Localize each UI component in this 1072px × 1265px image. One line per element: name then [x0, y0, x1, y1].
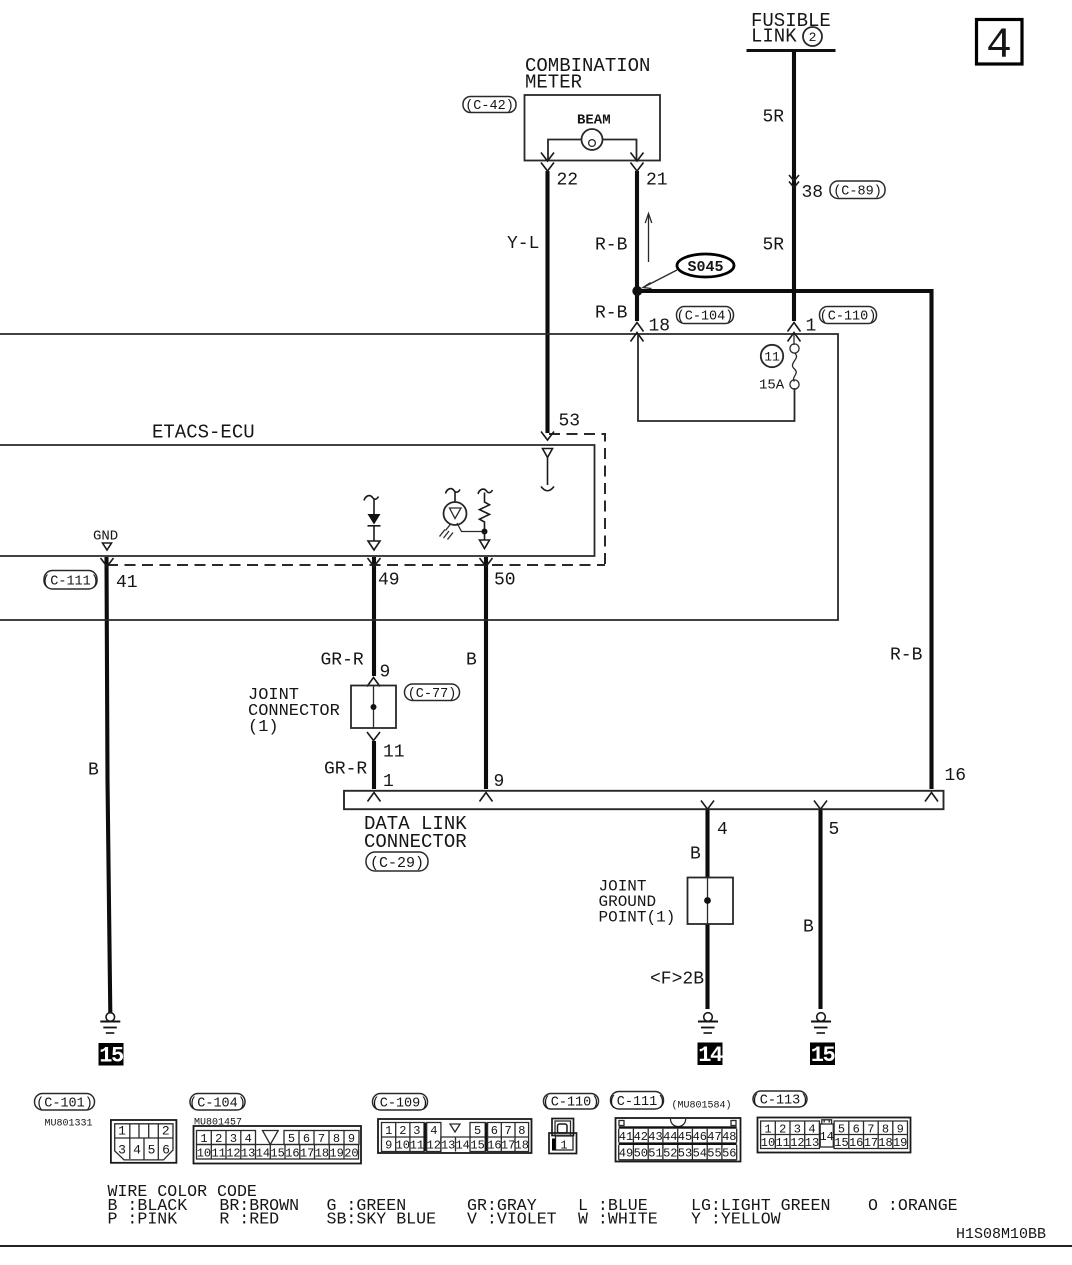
svg-text:5: 5 — [474, 1124, 481, 1138]
svg-text:(C-111): (C-111) — [609, 1095, 666, 1110]
svg-text:B: B — [88, 761, 99, 781]
svg-text:41: 41 — [116, 573, 138, 593]
svg-text:10: 10 — [197, 1147, 211, 1161]
svg-text:54: 54 — [693, 1147, 707, 1161]
svg-text:50: 50 — [494, 571, 516, 591]
svg-text:6: 6 — [491, 1124, 498, 1138]
svg-text:13: 13 — [805, 1136, 819, 1150]
svg-text:11: 11 — [211, 1147, 225, 1161]
svg-text:R-B: R-B — [890, 646, 923, 666]
svg-text:15: 15 — [470, 1139, 484, 1153]
svg-text:(C-110): (C-110) — [820, 310, 877, 325]
svg-text:4: 4 — [986, 21, 1012, 70]
svg-text:10: 10 — [396, 1139, 410, 1153]
svg-text:S045: S045 — [687, 259, 723, 276]
svg-text:10: 10 — [761, 1136, 775, 1150]
svg-text:(C-101): (C-101) — [36, 1097, 93, 1112]
svg-text:Y :YELLOW: Y :YELLOW — [691, 1210, 781, 1229]
svg-text:11: 11 — [775, 1136, 789, 1150]
svg-text:12: 12 — [790, 1136, 804, 1150]
svg-text:7: 7 — [318, 1132, 325, 1146]
svg-text:53: 53 — [559, 412, 581, 432]
svg-text:49: 49 — [619, 1147, 633, 1161]
svg-text:BEAM: BEAM — [577, 113, 611, 129]
svg-text:7: 7 — [867, 1123, 874, 1137]
svg-text:1: 1 — [560, 1139, 567, 1153]
svg-text:GR-R: GR-R — [324, 760, 367, 780]
svg-text:51: 51 — [648, 1147, 662, 1161]
svg-text:1: 1 — [385, 1124, 392, 1138]
svg-text:(C-113): (C-113) — [752, 1094, 809, 1109]
svg-text:(MU801584): (MU801584) — [672, 1100, 732, 1112]
svg-text:13: 13 — [441, 1139, 455, 1153]
svg-text:16: 16 — [487, 1139, 501, 1153]
svg-text:44: 44 — [663, 1130, 677, 1144]
svg-text:42: 42 — [634, 1130, 648, 1144]
svg-text:20: 20 — [344, 1147, 358, 1161]
svg-text:17: 17 — [300, 1147, 314, 1161]
svg-text:18: 18 — [878, 1136, 892, 1150]
svg-text:(C-111): (C-111) — [42, 575, 99, 590]
svg-text:B: B — [466, 651, 477, 671]
svg-text:18: 18 — [315, 1147, 329, 1161]
svg-text:GR-R: GR-R — [321, 651, 364, 671]
svg-text:14: 14 — [256, 1147, 270, 1161]
svg-text:4: 4 — [717, 820, 728, 840]
svg-text:2: 2 — [162, 1124, 170, 1139]
svg-text:11: 11 — [383, 743, 405, 763]
svg-text:1: 1 — [806, 317, 817, 337]
svg-text:16: 16 — [945, 766, 967, 786]
svg-text:5: 5 — [838, 1123, 845, 1137]
svg-text:18: 18 — [649, 317, 671, 337]
svg-text:11: 11 — [764, 350, 780, 365]
svg-text:(C-42): (C-42) — [465, 99, 514, 114]
svg-text:ETACS-ECU: ETACS-ECU — [152, 422, 255, 444]
svg-text:5: 5 — [288, 1132, 295, 1146]
svg-text:14: 14 — [455, 1139, 469, 1153]
svg-text:6: 6 — [303, 1132, 310, 1146]
svg-text:46: 46 — [693, 1130, 707, 1144]
svg-text:3: 3 — [794, 1123, 801, 1137]
svg-text:V :VIOLET: V :VIOLET — [467, 1210, 557, 1229]
svg-text:15: 15 — [99, 1044, 124, 1069]
svg-text:B: B — [803, 918, 814, 938]
svg-text:2: 2 — [809, 30, 817, 45]
svg-text:O :ORANGE: O :ORANGE — [868, 1196, 958, 1215]
svg-text:43: 43 — [648, 1130, 662, 1144]
svg-text:W :WHITE: W :WHITE — [578, 1210, 658, 1229]
svg-text:1: 1 — [118, 1124, 126, 1139]
svg-text:47: 47 — [707, 1130, 721, 1144]
svg-text:6: 6 — [162, 1143, 170, 1158]
svg-text:H1S08M10BB: H1S08M10BB — [956, 1226, 1046, 1243]
svg-text:19: 19 — [893, 1136, 907, 1150]
svg-text:(C-110): (C-110) — [543, 1096, 600, 1111]
svg-text:(1): (1) — [248, 718, 279, 737]
svg-text:(C-104): (C-104) — [677, 310, 734, 325]
svg-text:52: 52 — [663, 1147, 677, 1161]
svg-text:6: 6 — [853, 1123, 860, 1137]
svg-text:13: 13 — [241, 1147, 255, 1161]
svg-text:(C-104): (C-104) — [189, 1097, 246, 1112]
svg-text:14: 14 — [819, 1130, 833, 1144]
svg-text:9: 9 — [494, 772, 505, 792]
svg-text:2: 2 — [215, 1132, 222, 1146]
svg-text:5: 5 — [829, 820, 840, 840]
svg-text:5: 5 — [148, 1143, 156, 1158]
svg-text:2: 2 — [779, 1123, 786, 1137]
svg-text:8: 8 — [333, 1132, 340, 1146]
svg-text:50: 50 — [634, 1147, 648, 1161]
svg-text:56: 56 — [722, 1147, 736, 1161]
svg-text:5R: 5R — [763, 236, 785, 256]
svg-text:MU801331: MU801331 — [45, 1119, 93, 1130]
svg-text:41: 41 — [619, 1130, 633, 1144]
svg-text:(C-29): (C-29) — [370, 855, 424, 872]
svg-text:GND: GND — [93, 529, 118, 545]
svg-text:SB:SKY BLUE: SB:SKY BLUE — [327, 1210, 437, 1229]
svg-text:11: 11 — [410, 1139, 424, 1153]
svg-text:CONNECTOR: CONNECTOR — [364, 831, 467, 853]
svg-text:B: B — [690, 845, 701, 865]
svg-text:45: 45 — [678, 1130, 692, 1144]
svg-text:4: 4 — [808, 1123, 815, 1137]
svg-text:3: 3 — [118, 1143, 126, 1158]
svg-text:LINK: LINK — [751, 26, 797, 48]
svg-text:9: 9 — [380, 663, 391, 683]
svg-text:2: 2 — [399, 1124, 406, 1138]
svg-text:<F>2B: <F>2B — [650, 970, 704, 990]
svg-text:METER: METER — [525, 72, 582, 94]
svg-text:17: 17 — [864, 1136, 878, 1150]
svg-text:15: 15 — [811, 1043, 836, 1068]
svg-text:14: 14 — [698, 1043, 723, 1068]
svg-text:53: 53 — [678, 1147, 692, 1161]
svg-text:9: 9 — [385, 1139, 392, 1153]
svg-text:21: 21 — [646, 171, 668, 191]
svg-text:16: 16 — [285, 1147, 299, 1161]
svg-text:3: 3 — [413, 1124, 420, 1138]
svg-text:5R: 5R — [763, 108, 785, 128]
svg-text:R :RED: R :RED — [219, 1210, 279, 1229]
svg-text:1: 1 — [383, 772, 394, 792]
svg-text:Y-L: Y-L — [507, 234, 539, 254]
svg-text:P :PINK: P :PINK — [108, 1210, 178, 1229]
svg-text:48: 48 — [722, 1130, 736, 1144]
svg-text:38: 38 — [802, 183, 824, 203]
svg-text:9: 9 — [897, 1123, 904, 1137]
svg-text:9: 9 — [348, 1132, 355, 1146]
svg-text:55: 55 — [707, 1147, 721, 1161]
svg-text:12: 12 — [226, 1147, 240, 1161]
svg-text:(C-109): (C-109) — [372, 1097, 429, 1112]
svg-text:(C-89): (C-89) — [833, 185, 882, 200]
svg-text:15: 15 — [270, 1147, 284, 1161]
svg-text:1: 1 — [764, 1123, 771, 1137]
svg-text:18: 18 — [515, 1139, 529, 1153]
svg-text:15: 15 — [834, 1136, 848, 1150]
svg-text:17: 17 — [501, 1139, 515, 1153]
svg-text:4: 4 — [133, 1143, 141, 1158]
svg-text:R-B: R-B — [595, 304, 628, 324]
svg-text:3: 3 — [230, 1132, 237, 1146]
svg-text:49: 49 — [378, 571, 400, 591]
svg-text:19: 19 — [329, 1147, 343, 1161]
svg-text:15A: 15A — [759, 378, 785, 394]
svg-text:R-B: R-B — [595, 236, 628, 256]
svg-text:(C-77): (C-77) — [408, 687, 457, 702]
svg-text:12: 12 — [427, 1139, 441, 1153]
svg-text:8: 8 — [882, 1123, 889, 1137]
svg-text:4: 4 — [245, 1132, 252, 1146]
svg-text:1: 1 — [200, 1132, 207, 1146]
svg-text:22: 22 — [557, 171, 579, 191]
svg-text:4: 4 — [430, 1124, 437, 1138]
svg-text:7: 7 — [504, 1124, 511, 1138]
svg-text:POINT(1): POINT(1) — [599, 909, 676, 927]
svg-text:16: 16 — [849, 1136, 863, 1150]
svg-text:8: 8 — [518, 1124, 525, 1138]
